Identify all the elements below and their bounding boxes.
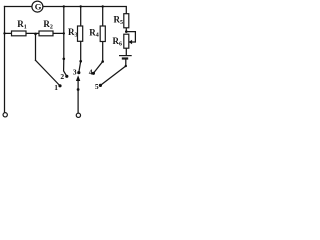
svg-text:1: 1 bbox=[54, 83, 58, 92]
svg-text:3: 3 bbox=[73, 67, 77, 76]
svg-text:G: G bbox=[35, 2, 42, 12]
svg-text:4: 4 bbox=[89, 67, 93, 76]
svg-text:5: 5 bbox=[95, 82, 99, 91]
svg-text:2: 2 bbox=[60, 72, 64, 81]
